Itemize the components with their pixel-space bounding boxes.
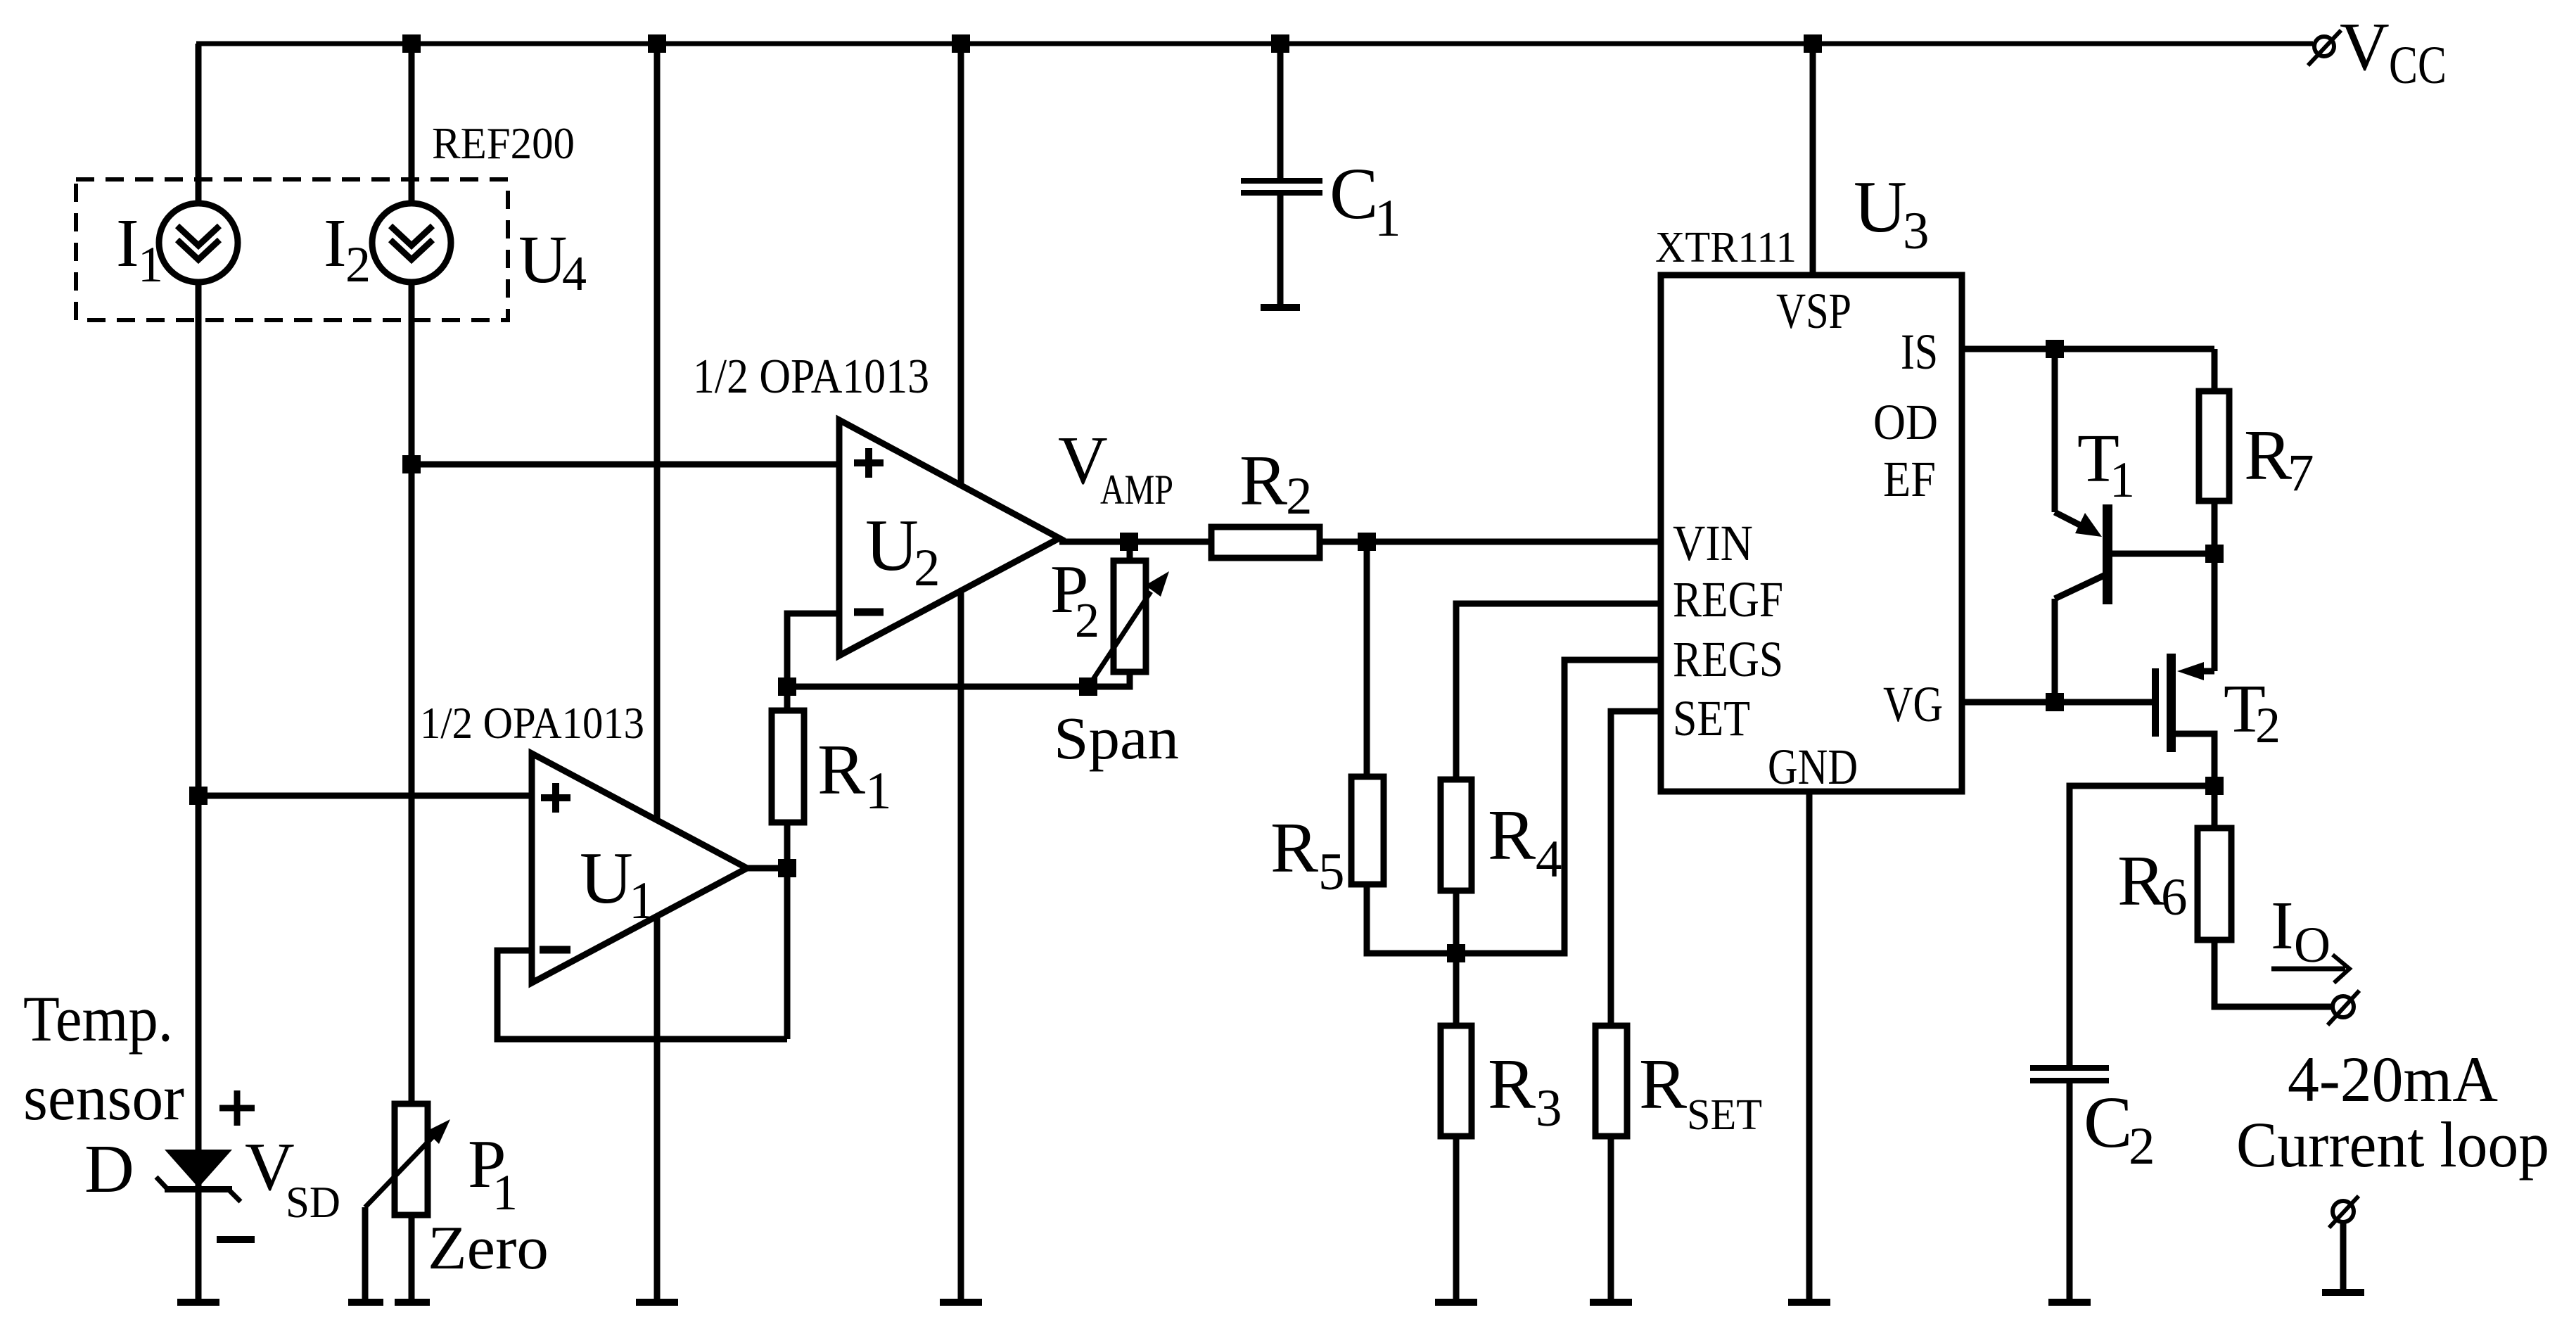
svg-text:R: R xyxy=(1639,1045,1687,1124)
svg-text:R: R xyxy=(2117,841,2165,921)
resistor R1 xyxy=(784,687,791,711)
svg-text:VG: VG xyxy=(1883,676,1943,732)
wire U2 feedback row xyxy=(787,684,1088,690)
svg-text:CC: CC xyxy=(2389,36,2447,95)
wire U1 feedback xyxy=(497,950,787,1039)
transistor T1 xyxy=(2052,349,2058,512)
svg-text:R: R xyxy=(1488,1045,1536,1124)
wire IS pin xyxy=(1962,346,2214,352)
svg-text:R: R xyxy=(1239,441,1287,521)
wire VCC rail xyxy=(196,42,2313,46)
svg-text:R: R xyxy=(1270,808,1318,888)
svg-text:U: U xyxy=(580,836,633,919)
svg-text:R: R xyxy=(817,730,865,810)
resistor R5 xyxy=(1364,542,1370,777)
svg-text:I: I xyxy=(116,205,139,281)
svg-text:2: 2 xyxy=(345,236,371,293)
terminal current loop bottom xyxy=(2333,1201,2354,1222)
svg-text:R: R xyxy=(1488,796,1536,875)
svg-text:6: 6 xyxy=(2161,868,2188,927)
wire GND pin xyxy=(1806,791,1813,1299)
svg-text:1/2 OPA1013: 1/2 OPA1013 xyxy=(420,698,644,748)
svg-text:1: 1 xyxy=(138,236,163,293)
svg-text:Zero: Zero xyxy=(428,1214,549,1283)
svg-text:Current loop: Current loop xyxy=(2236,1109,2549,1181)
svg-text:VIN: VIN xyxy=(1673,515,1753,571)
capacitor C1 xyxy=(1277,44,1284,178)
wire REGS elbow xyxy=(1456,660,1661,953)
IC U3 XTR111 box xyxy=(1661,275,1962,791)
svg-text:4: 4 xyxy=(1536,830,1562,889)
node VSD minus sign xyxy=(217,1236,255,1243)
REF200 dashed box U4 xyxy=(76,179,508,320)
svg-text:OD: OD xyxy=(1873,394,1938,450)
svg-text:VSP: VSP xyxy=(1776,283,1851,339)
wire I1 branch vertical xyxy=(196,44,202,205)
svg-text:SET: SET xyxy=(1687,1091,1762,1139)
svg-text:5: 5 xyxy=(1318,843,1345,901)
wire U2 inverting input xyxy=(787,613,839,687)
svg-text:3: 3 xyxy=(1903,202,1930,260)
node VCC label xyxy=(2340,9,2447,95)
current source I1 xyxy=(159,203,238,282)
resistor R4 xyxy=(1441,780,1472,891)
svg-text:REGF: REGF xyxy=(1673,571,1783,628)
transistor T2 mosfet xyxy=(2152,668,2159,737)
wire SET to RSET xyxy=(1611,711,1661,1026)
svg-text:U: U xyxy=(518,222,567,297)
svg-text:U: U xyxy=(1854,165,1907,248)
svg-text:1: 1 xyxy=(492,1164,518,1221)
ground terminal I1 branch xyxy=(177,1299,219,1306)
resistor R2 xyxy=(1211,527,1320,558)
svg-text:sensor: sensor xyxy=(23,1062,184,1133)
wire R2 to VIN xyxy=(1320,539,1661,545)
resistor R3 xyxy=(1453,953,1460,1026)
svg-text:4-20mA: 4-20mA xyxy=(2288,1043,2498,1115)
wire node A to U2 plus input xyxy=(412,462,839,468)
wire VG pin xyxy=(1962,699,2152,706)
wire VSP to rail xyxy=(1810,44,1816,275)
svg-text:SET: SET xyxy=(1673,690,1750,746)
capacitor C2 xyxy=(2070,786,2214,1065)
terminal VCC xyxy=(2314,37,2334,56)
svg-text:1: 1 xyxy=(629,872,656,930)
svg-text:SD: SD xyxy=(286,1177,340,1227)
wire node B to U1 plus input xyxy=(198,793,532,799)
potentiometer P1 xyxy=(395,1104,428,1215)
svg-text:U: U xyxy=(865,504,919,586)
svg-text:2: 2 xyxy=(1075,594,1099,648)
op-amp U1 xyxy=(532,753,747,983)
svg-text:XTR111: XTR111 xyxy=(1655,224,1797,272)
node rail junction dots xyxy=(402,34,1822,53)
diode D temp sensor xyxy=(165,1150,232,1188)
svg-text:IS: IS xyxy=(1901,324,1938,380)
terminal IO output xyxy=(2333,996,2354,1017)
svg-text:EF: EF xyxy=(1883,451,1936,507)
node 4-20mA current loop label xyxy=(2236,1043,2549,1181)
svg-text:C: C xyxy=(2084,1082,2132,1163)
svg-text:AMP: AMP xyxy=(1100,466,1173,513)
svg-text:I: I xyxy=(324,205,347,281)
wire REGF to R4 xyxy=(1456,604,1661,780)
svg-text:1/2 OPA1013: 1/2 OPA1013 xyxy=(693,350,929,404)
svg-text:GND: GND xyxy=(1768,739,1858,795)
svg-text:O: O xyxy=(2294,917,2330,973)
svg-text:2: 2 xyxy=(1286,467,1313,526)
svg-text:REGS: REGS xyxy=(1673,631,1783,687)
wire U2 output VAMP xyxy=(1059,539,1211,545)
svg-text:D: D xyxy=(84,1131,134,1207)
svg-text:I: I xyxy=(2271,888,2294,964)
current source I2 xyxy=(372,203,451,282)
svg-text:4: 4 xyxy=(562,247,587,301)
node VSD plus sign xyxy=(219,1105,255,1112)
wire long vertical 4 xyxy=(958,44,964,1299)
svg-text:2: 2 xyxy=(2129,1117,2155,1176)
svg-text:2: 2 xyxy=(2255,697,2281,753)
svg-text:1: 1 xyxy=(1375,189,1401,248)
resistor R6 xyxy=(2212,786,2218,828)
svg-text:3: 3 xyxy=(1536,1079,1562,1138)
svg-text:7: 7 xyxy=(2288,444,2314,502)
svg-text:1: 1 xyxy=(2110,452,2135,508)
svg-text:2: 2 xyxy=(914,539,941,597)
svg-text:C: C xyxy=(1330,153,1378,234)
svg-text:1: 1 xyxy=(865,762,892,820)
resistor R7 xyxy=(2212,349,2218,391)
op-amp U2 xyxy=(839,420,1059,656)
wire U1 output xyxy=(747,865,787,872)
svg-text:R: R xyxy=(2244,416,2292,495)
svg-text:V: V xyxy=(2340,9,2390,85)
resistor RSET xyxy=(1595,1026,1627,1136)
node IO label and arrow xyxy=(2271,888,2330,973)
svg-text:Span: Span xyxy=(1054,704,1179,772)
svg-text:REF200: REF200 xyxy=(432,118,575,168)
wire long vertical 3 xyxy=(654,44,661,1299)
svg-text:Temp.: Temp. xyxy=(23,983,173,1055)
wire I2 branch vertical xyxy=(409,44,415,203)
potentiometer P2 xyxy=(1127,542,1133,561)
